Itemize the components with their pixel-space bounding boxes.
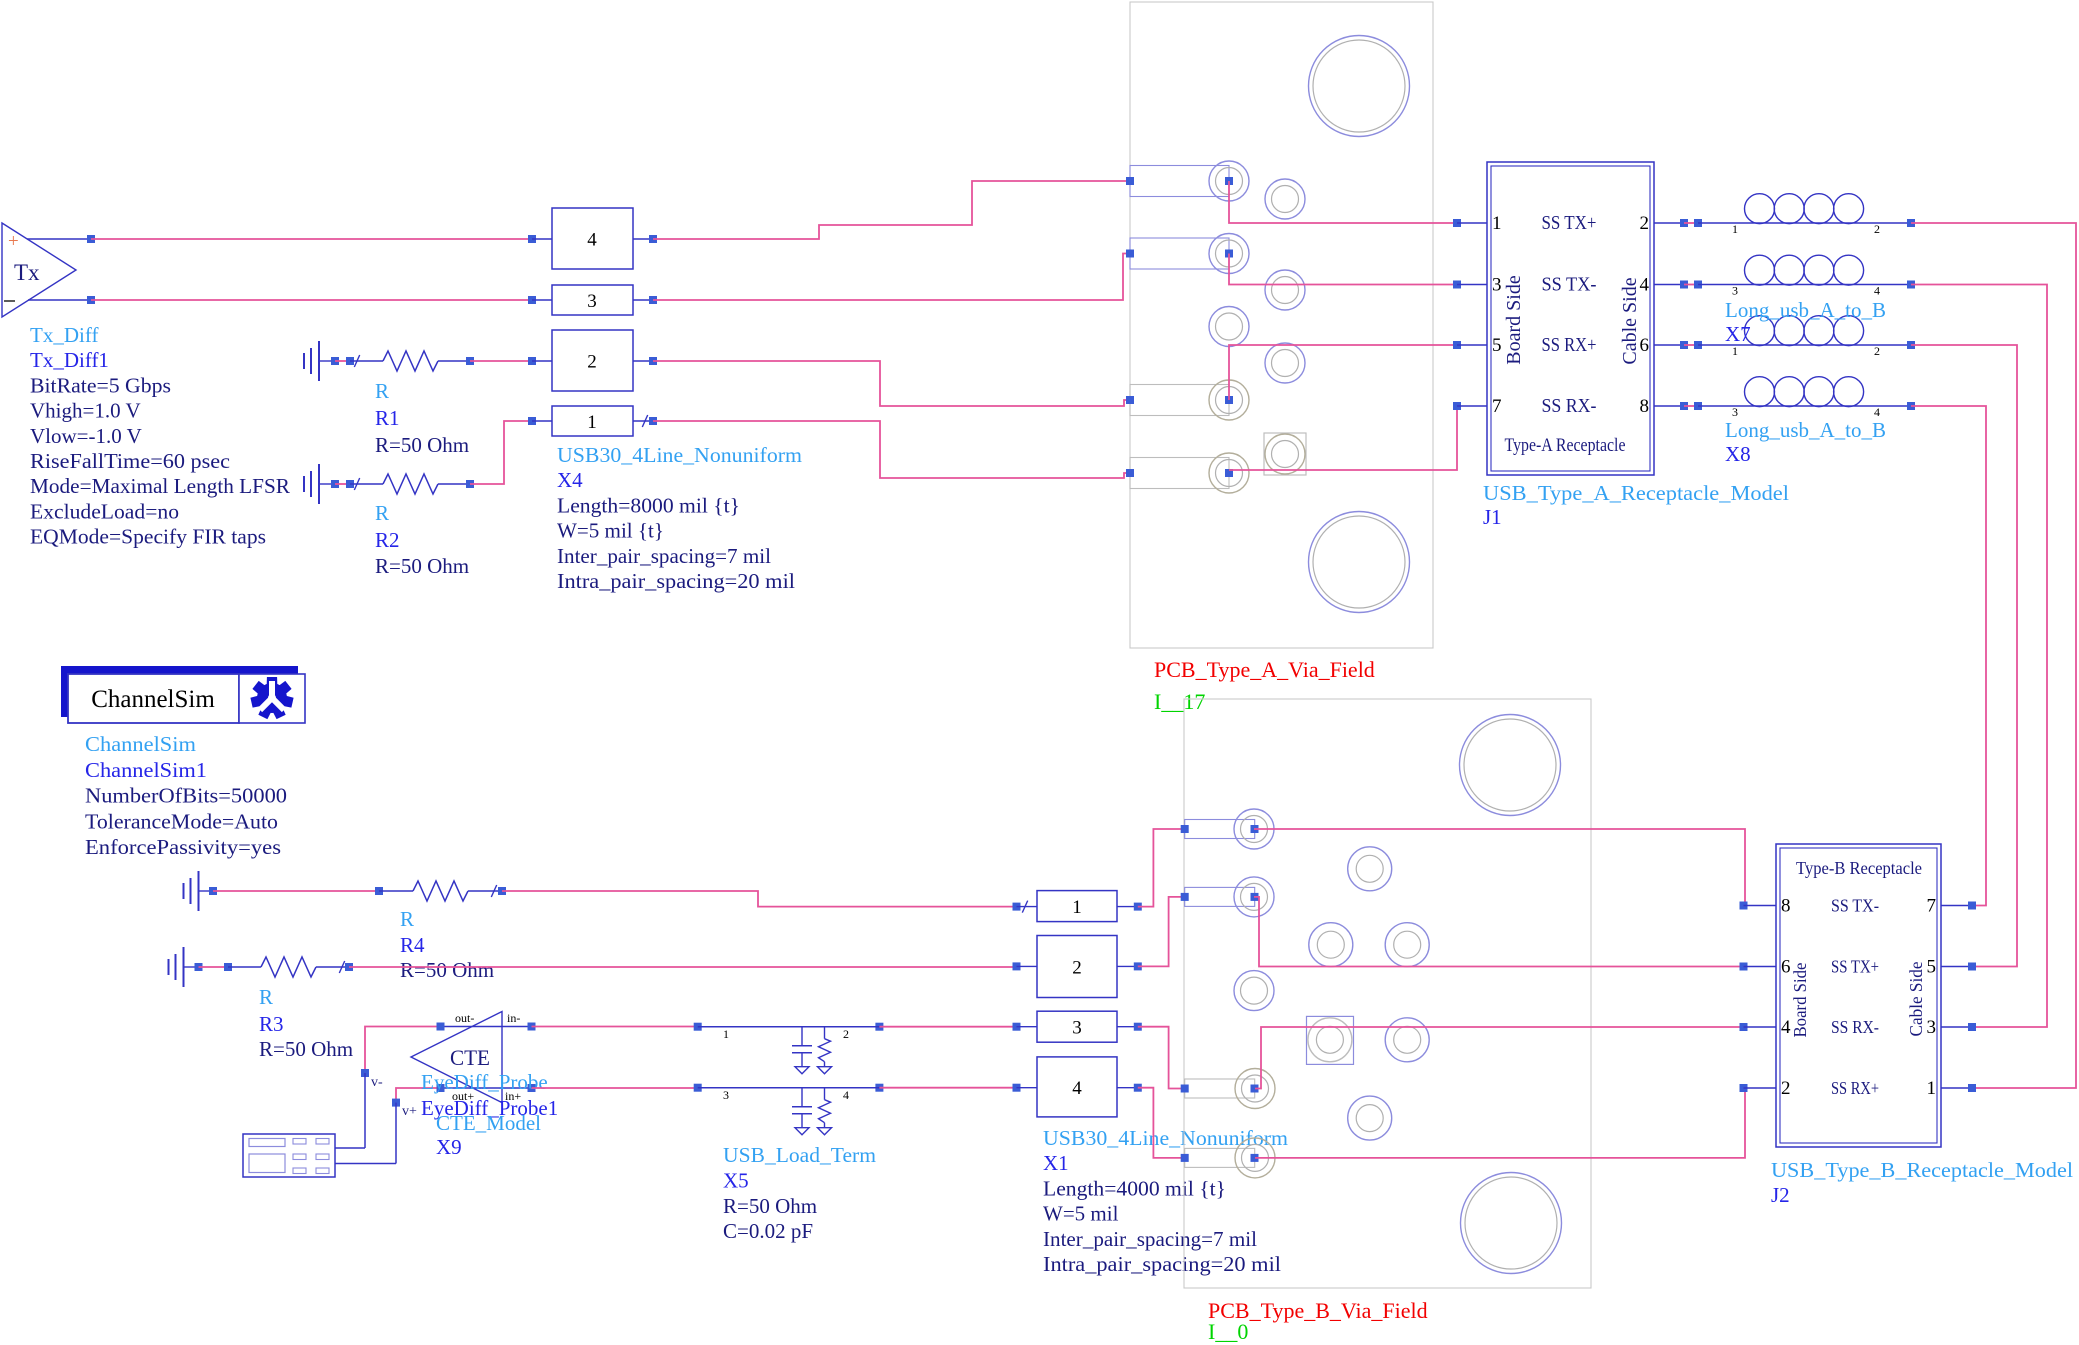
svg-text:4: 4 [843,1088,849,1102]
svg-text:8: 8 [1640,396,1650,417]
svg-text:R: R [259,985,273,1009]
svg-text:in-: in- [507,1011,520,1025]
svg-text:Long_usb_A_to_B: Long_usb_A_to_B [1725,418,1886,442]
svg-text:out-: out- [455,1011,474,1025]
svg-text:3: 3 [1072,1018,1082,1039]
svg-text:Cable Side: Cable Side [1619,277,1641,364]
svg-text:Inter_pair_spacing=7 mil: Inter_pair_spacing=7 mil [1043,1227,1257,1251]
svg-text:Tx_Diff1: Tx_Diff1 [30,348,109,372]
svg-text:R=50 Ohm: R=50 Ohm [400,958,494,982]
svg-text:7: 7 [1492,396,1502,417]
svg-text:4: 4 [1072,1078,1082,1099]
svg-text:v+: v+ [402,1104,417,1119]
svg-text:3: 3 [1492,275,1502,296]
svg-text:1: 1 [1732,222,1738,236]
svg-text:ChannelSim: ChannelSim [85,732,196,756]
svg-text:CTE_Model: CTE_Model [436,1111,541,1135]
svg-text:3: 3 [1927,1017,1937,1038]
svg-text:Type-A Receptacle: Type-A Receptacle [1505,435,1626,456]
svg-text:W=5 mil {t}: W=5 mil {t} [557,519,664,543]
svg-text:2: 2 [1072,958,1082,979]
svg-text:1: 1 [587,412,597,433]
svg-text:R1: R1 [375,406,400,430]
svg-text:CTE: CTE [450,1045,490,1070]
svg-text:3: 3 [587,291,597,312]
svg-text:R=50 Ohm: R=50 Ohm [723,1194,817,1218]
svg-text:R=50 Ohm: R=50 Ohm [259,1037,353,1061]
svg-text:Length=8000 mil {t}: Length=8000 mil {t} [557,493,740,517]
svg-text:SS TX+: SS TX+ [1831,957,1879,977]
svg-text:SS RX-: SS RX- [1542,395,1597,417]
svg-text:Board Side: Board Side [1790,962,1810,1037]
svg-text:Long_usb_A_to_B: Long_usb_A_to_B [1725,298,1886,322]
svg-text:Vlow=-1.0 V: Vlow=-1.0 V [30,424,142,448]
svg-text:SS RX+: SS RX+ [1542,334,1597,356]
svg-text:USB_Type_B_Receptacle_Model: USB_Type_B_Receptacle_Model [1771,1158,2073,1182]
svg-text:7: 7 [1927,896,1937,917]
svg-text:Board Side: Board Side [1503,275,1525,365]
svg-text:R4: R4 [400,933,425,957]
svg-text:4: 4 [1874,405,1880,419]
svg-text:1: 1 [1492,213,1502,234]
svg-text:5: 5 [1927,957,1937,978]
svg-text:C=0.02 pF: C=0.02 pF [723,1219,813,1243]
svg-text:8: 8 [1781,896,1791,917]
svg-text:R: R [375,379,389,403]
svg-text:ChannelSim: ChannelSim [91,686,215,713]
svg-text:X7: X7 [1725,322,1751,346]
svg-text:3: 3 [723,1088,729,1102]
svg-text:ChannelSim1: ChannelSim1 [85,758,207,782]
svg-text:R2: R2 [375,528,400,552]
svg-text:1: 1 [1732,344,1738,358]
svg-text:Type-B Receptacle: Type-B Receptacle [1796,858,1922,878]
svg-text:Cable Side: Cable Side [1906,962,1926,1037]
svg-text:2: 2 [1781,1078,1791,1099]
svg-text:R=50 Ohm: R=50 Ohm [375,433,469,457]
svg-text:ExcludeLoad=no: ExcludeLoad=no [30,499,179,523]
svg-text:Tx_Diff: Tx_Diff [30,323,98,347]
svg-text:X1: X1 [1043,1151,1069,1175]
svg-text:W=5 mil: W=5 mil [1043,1202,1119,1226]
svg-text:5: 5 [1492,335,1502,356]
svg-text:2: 2 [843,1027,849,1041]
svg-text:Vhigh=1.0 V: Vhigh=1.0 V [30,399,141,423]
svg-text:BitRate=5 Gbps: BitRate=5 Gbps [30,373,171,397]
svg-text:X4: X4 [557,468,583,492]
svg-text:1: 1 [1927,1078,1937,1099]
svg-text:EQMode=Specify FIR taps: EQMode=Specify FIR taps [30,525,266,549]
svg-text:NumberOfBits=50000: NumberOfBits=50000 [85,784,287,808]
svg-text:3: 3 [1732,405,1738,419]
svg-text:2: 2 [1874,344,1880,358]
svg-text:J2: J2 [1771,1183,1790,1207]
svg-text:USB_Load_Term: USB_Load_Term [723,1143,876,1167]
svg-text:Tx: Tx [14,260,40,285]
svg-text:X5: X5 [723,1168,749,1192]
svg-text:Length=4000 mil {t}: Length=4000 mil {t} [1043,1176,1226,1200]
svg-text:X9: X9 [436,1135,462,1159]
svg-text:EnforcePassivity=yes: EnforcePassivity=yes [85,835,281,859]
svg-text:RiseFallTime=60 psec: RiseFallTime=60 psec [30,449,230,473]
svg-text:3: 3 [1732,284,1738,298]
svg-text:Inter_pair_spacing=7 mil: Inter_pair_spacing=7 mil [557,544,771,568]
svg-text:USB_Type_A_Receptacle_Model: USB_Type_A_Receptacle_Model [1483,481,1789,505]
svg-text:1: 1 [1072,897,1082,918]
svg-text:USB30_4Line_Nonuniform: USB30_4Line_Nonuniform [557,443,802,467]
svg-text:I__0: I__0 [1208,1319,1248,1344]
svg-text:PCB_Type_A_Via_Field: PCB_Type_A_Via_Field [1154,657,1375,682]
svg-text:SS TX-: SS TX- [1542,274,1597,296]
svg-text:R3: R3 [259,1012,284,1036]
svg-text:4: 4 [587,230,597,251]
svg-text:2: 2 [1874,222,1880,236]
svg-text:J1: J1 [1483,505,1502,529]
svg-text:R: R [400,907,414,931]
svg-text:SS RX+: SS RX+ [1831,1078,1879,1098]
svg-text:X8: X8 [1725,442,1751,466]
svg-text:SS TX+: SS TX+ [1542,212,1597,234]
svg-text:R: R [375,501,389,525]
svg-text:R=50 Ohm: R=50 Ohm [375,554,469,578]
svg-text:SS RX-: SS RX- [1831,1017,1879,1037]
svg-text:I__17: I__17 [1154,689,1205,714]
svg-text:4: 4 [1640,275,1650,296]
svg-text:v-: v- [371,1075,383,1090]
svg-text:Mode=Maximal Length LFSR: Mode=Maximal Length LFSR [30,474,290,498]
svg-text:2: 2 [587,352,597,373]
svg-text:4: 4 [1874,284,1880,298]
svg-text:SS TX-: SS TX- [1831,896,1879,916]
svg-text:Intra_pair_spacing=20 mil: Intra_pair_spacing=20 mil [557,569,795,593]
svg-text:Intra_pair_spacing=20 mil: Intra_pair_spacing=20 mil [1043,1252,1281,1276]
svg-text:2: 2 [1640,213,1650,234]
svg-text:1: 1 [723,1027,729,1041]
svg-text:ToleranceMode=Auto: ToleranceMode=Auto [85,809,278,833]
svg-text:EyeDiff_Probe: EyeDiff_Probe [421,1070,548,1094]
svg-text:+: + [8,231,19,252]
